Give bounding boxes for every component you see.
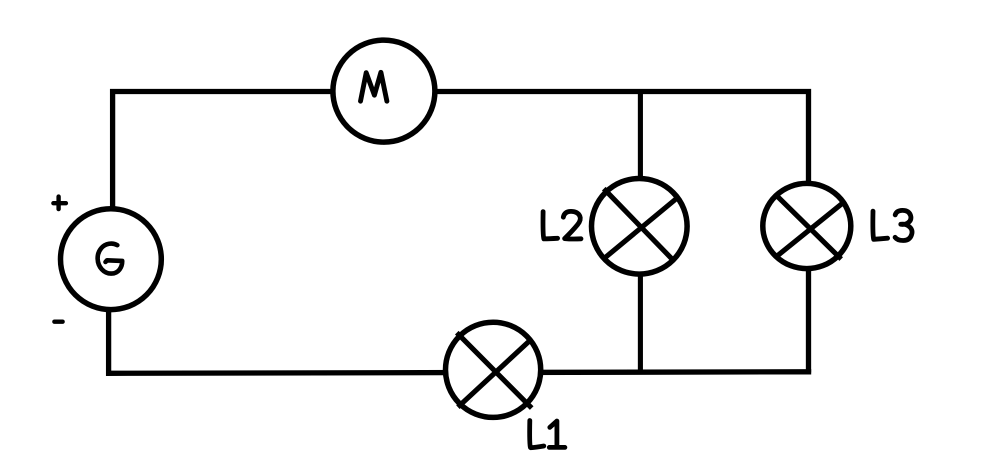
label M (motor) [361, 72, 387, 101]
wire: L2 branch vertical [638, 92, 643, 373]
lamp L3 cross [776, 196, 846, 259]
lamp L1 cross [457, 333, 532, 408]
wire: top loop from G up, across top, down right side [113, 92, 809, 373]
lamp L2 cross [604, 189, 678, 260]
label L1 [530, 421, 565, 448]
motor M circle [333, 40, 435, 142]
label L2 [543, 211, 581, 239]
label plus sign [53, 197, 66, 210]
label minus sign [54, 320, 62, 324]
lamp L2 circle [592, 179, 688, 275]
lamp L1 circle [446, 322, 541, 417]
label L3 [873, 210, 912, 240]
generator G circle [61, 209, 162, 310]
lamp L3 circle [763, 183, 851, 268]
wire: bottom loop from G down and across bottom [109, 230, 812, 373]
label G (generator) [98, 244, 123, 274]
